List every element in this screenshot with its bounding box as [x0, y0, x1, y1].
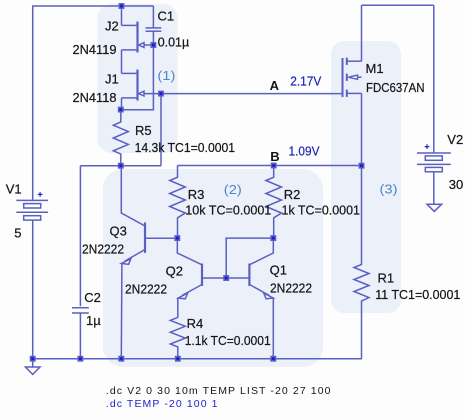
- jfet J1: [122, 70, 162, 101]
- wire top-right rail: [362, 4, 434, 6]
- svg-text:R3: R3: [188, 187, 205, 202]
- svg-text:1µ: 1µ: [86, 313, 101, 328]
- capacitor C1: [146, 6, 162, 45]
- svg-text:11 TC1=0.0001: 11 TC1=0.0001: [375, 287, 460, 302]
- wire J2 drain to rail: [121, 6, 123, 25]
- svg-text:2N4119: 2N4119: [73, 42, 117, 57]
- svg-text:0.01µ: 0.01µ: [158, 34, 190, 49]
- wire node A down to R5 bottom rail: [160, 94, 162, 166]
- svg-text:14.3k TC1=0.0001: 14.3k TC1=0.0001: [135, 140, 236, 155]
- svg-text:1k TC=0.0001: 1k TC=0.0001: [282, 203, 361, 218]
- junction J2 drain-rail: [119, 4, 123, 8]
- resistor R4: [170, 299, 185, 359]
- junction R5 bottom: [119, 164, 123, 168]
- svg-text:2N4118: 2N4118: [73, 90, 117, 105]
- transistor Q3: [121, 166, 177, 359]
- svg-text:V2: V2: [447, 132, 463, 147]
- svg-text:.dc TEMP -20 100 1: .dc TEMP -20 100 1: [106, 398, 219, 410]
- jfet J2: [122, 22, 154, 53]
- junction C1-J2 gate: [151, 43, 155, 47]
- junction R3 bottom: [175, 236, 179, 240]
- capacitor C2: [72, 308, 89, 359]
- wire J2 source to J1 drain: [121, 50, 123, 74]
- junction node B / M1 source: [359, 164, 363, 168]
- svg-text:R4: R4: [187, 316, 204, 331]
- svg-text:(3): (3): [380, 181, 398, 196]
- mosfet M1: [343, 5, 362, 166]
- wire bottom rail: [33, 358, 362, 360]
- svg-text:30: 30: [449, 177, 463, 192]
- wire R5 bottom rail: [80, 165, 161, 167]
- svg-text:C1: C1: [158, 9, 175, 24]
- svg-text:1.09V: 1.09V: [289, 143, 320, 158]
- svg-text:10k TC=0.0001: 10k TC=0.0001: [185, 203, 271, 218]
- svg-text:J2: J2: [105, 19, 119, 34]
- wire node B: [178, 165, 362, 167]
- junction bases: [224, 276, 228, 280]
- ground left: [25, 359, 40, 375]
- svg-text:M1: M1: [366, 61, 384, 76]
- junction R2 bottom: [271, 236, 275, 240]
- svg-text:Q2: Q2: [166, 263, 183, 278]
- wire V2 top: [433, 5, 435, 153]
- svg-text:(1): (1): [157, 68, 175, 83]
- junction V1 bottom rail: [31, 357, 35, 361]
- battery V2: [417, 144, 451, 204]
- wire C2 branch top: [79, 166, 81, 307]
- highlight region (1): [98, 4, 178, 153]
- svg-text:1.1k TC=0.0001: 1.1k TC=0.0001: [185, 333, 271, 348]
- svg-text:2N2222: 2N2222: [82, 242, 124, 257]
- svg-text:C2: C2: [84, 290, 101, 305]
- svg-text:B: B: [270, 149, 279, 164]
- wire C1 bottom to R5 top: [121, 45, 154, 110]
- resistor R5: [113, 110, 128, 166]
- svg-text:Q1: Q1: [270, 263, 287, 278]
- svg-text:J1: J1: [105, 72, 119, 87]
- transistor Q1: [226, 238, 273, 359]
- wire bases to R2 bottom: [226, 238, 273, 278]
- svg-text:(2): (2): [224, 182, 242, 197]
- svg-text:.dc V2 0 30 10m TEMP LIST -20: .dc V2 0 30 10m TEMP LIST -20 27 100: [106, 385, 332, 397]
- svg-text:FDC637AN: FDC637AN: [366, 80, 425, 95]
- svg-text:5: 5: [14, 225, 21, 240]
- transistor Q2: [177, 238, 226, 299]
- junction R2 top node B: [272, 163, 276, 167]
- highlight region (3): [331, 41, 401, 313]
- svg-text:2N2222: 2N2222: [125, 281, 167, 296]
- junction R4 bottom: [176, 357, 180, 361]
- svg-text:2.17V: 2.17V: [290, 73, 321, 88]
- battery V1: [16, 192, 48, 359]
- resistor R3: [170, 166, 186, 239]
- junction C2 bottom: [78, 357, 82, 361]
- svg-text:2N2222: 2N2222: [270, 281, 312, 296]
- svg-text:V1: V1: [6, 181, 22, 196]
- junction R5 top: [119, 107, 123, 111]
- junction node A: [159, 91, 163, 95]
- resistor R1: [354, 166, 369, 359]
- svg-text:R1: R1: [378, 271, 395, 286]
- highlight region (2): [103, 169, 323, 367]
- ground right: [427, 204, 442, 211]
- svg-text:R2: R2: [284, 187, 301, 202]
- svg-text:A: A: [270, 78, 280, 93]
- wire J1 source down: [120, 98, 123, 110]
- svg-text:R5: R5: [135, 123, 152, 138]
- wire top-left rail: [33, 6, 154, 200]
- junction Q1 emitter rail: [271, 357, 275, 361]
- resistor R2: [266, 166, 282, 239]
- svg-text:Q3: Q3: [110, 224, 127, 239]
- wire node A: [161, 93, 343, 95]
- junction Q3 emitter rail: [119, 357, 123, 361]
